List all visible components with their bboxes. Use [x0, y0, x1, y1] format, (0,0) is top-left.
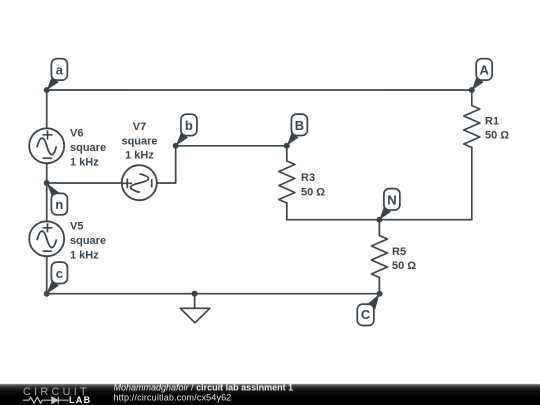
svg-text:a: a	[56, 63, 64, 78]
footer bar	[0, 384, 540, 405]
svg-text:50 Ω: 50 Ω	[485, 130, 509, 142]
svg-text:R5: R5	[392, 246, 406, 258]
node flag B	[287, 114, 308, 146]
node dot a	[44, 87, 50, 93]
svg-text:V6: V6	[70, 128, 83, 140]
wire R5 bottom to C	[378, 278, 380, 294]
svg-text:B: B	[295, 118, 304, 133]
wire V7 right to b	[157, 146, 176, 183]
node dot n	[44, 180, 50, 186]
svg-text:LAB: LAB	[69, 395, 91, 405]
svg-text:1 kHz: 1 kHz	[125, 150, 154, 162]
svg-text:square: square	[70, 235, 106, 247]
wire N to R5 top	[378, 220, 380, 236]
wire B to R3 top	[286, 146, 288, 161]
wire A to R1 top	[471, 90, 473, 106]
wire mid rail R3 to R1	[287, 219, 472, 221]
wire a to V6 top	[46, 90, 48, 128]
node flag b	[176, 114, 197, 146]
voltage source V7	[122, 165, 157, 200]
node dot b	[173, 143, 179, 149]
wire R3 bottom to mid rail	[286, 203, 288, 220]
svg-text:V5: V5	[70, 221, 83, 233]
wire V5 bottom to c	[46, 256, 48, 293]
ground triangle	[180, 308, 210, 323]
svg-text:square: square	[70, 142, 106, 154]
svg-text:C: C	[361, 307, 371, 322]
node flag A	[472, 59, 492, 90]
node dot A	[469, 87, 475, 93]
node flag a	[47, 59, 68, 90]
svg-text:Mohammadghafoir / circuit lab: Mohammadghafoir / circuit lab assinment …	[114, 382, 294, 392]
svg-text:b: b	[185, 118, 193, 133]
svg-text:http://circuitlab.com/cx54y62: http://circuitlab.com/cx54y62	[114, 392, 232, 402]
svg-text:R1: R1	[485, 116, 499, 128]
ground stem	[194, 294, 196, 309]
logo resistor zigzag	[23, 397, 52, 403]
svg-text:V7: V7	[133, 121, 146, 133]
svg-text:c: c	[56, 266, 63, 281]
svg-text:1 kHz: 1 kHz	[70, 156, 99, 168]
svg-text:n: n	[55, 197, 63, 212]
node dot C	[377, 291, 383, 297]
node dot c	[44, 291, 50, 297]
node dot N	[376, 217, 382, 223]
svg-text:R3: R3	[301, 172, 315, 184]
node flag n	[47, 183, 68, 215]
svg-text:A: A	[480, 63, 490, 78]
resistor R5	[371, 236, 387, 278]
svg-text:50 Ω: 50 Ω	[301, 187, 325, 199]
node flag C	[357, 294, 379, 326]
voltage source V6	[29, 128, 64, 163]
wire top rail a to A	[47, 89, 472, 91]
wire bottom rail c to C	[47, 293, 380, 295]
svg-text:50 Ω: 50 Ω	[392, 260, 416, 272]
svg-text:square: square	[121, 135, 157, 147]
node dot ground	[192, 291, 198, 297]
node flag c	[47, 262, 68, 294]
resistor R3	[279, 161, 295, 203]
resistor R1	[464, 106, 480, 148]
node flag N	[379, 189, 400, 220]
svg-text:1 kHz: 1 kHz	[70, 249, 99, 261]
wire b to B	[176, 145, 287, 147]
node dot B	[284, 143, 290, 149]
wire n to V5 top	[46, 183, 48, 221]
wire n to V7 left	[47, 182, 122, 184]
logo diode	[52, 397, 58, 404]
svg-text:N: N	[387, 192, 396, 207]
wire R1 bottom to mid rail	[471, 148, 473, 220]
wire V6 bottom to n	[46, 163, 48, 183]
voltage source V5	[29, 221, 64, 256]
